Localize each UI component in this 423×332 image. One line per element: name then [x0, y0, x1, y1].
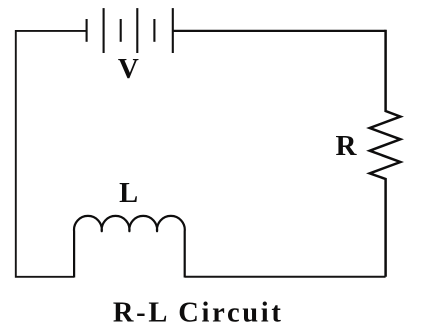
svg-text:L: L: [119, 178, 138, 209]
inductor L (4 humps) with risers: [74, 216, 185, 278]
battery V (3 cells): [87, 8, 173, 53]
wire left loop: top-left, left side, bottom-left: [16, 31, 87, 277]
svg-text:V: V: [118, 53, 139, 85]
svg-text:R-L Circuit: R-L Circuit: [113, 298, 282, 329]
wire bottom-right from inductor to right corner: [185, 276, 386, 278]
svg-text:R: R: [336, 130, 358, 162]
wire top-right from battery to right corner: [173, 30, 386, 32]
resistor R with leads: [370, 30, 401, 277]
